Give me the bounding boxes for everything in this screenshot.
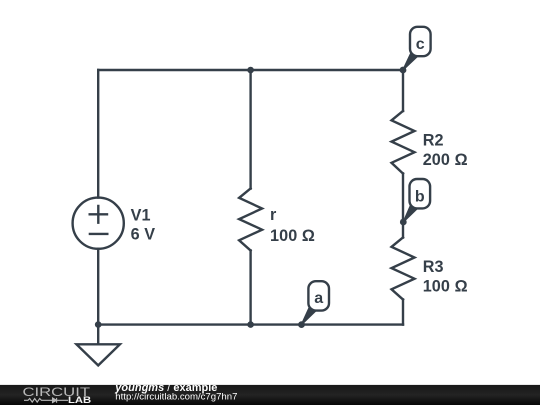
- svg-text:100 Ω: 100 Ω: [423, 278, 468, 296]
- wire left vertical (bottom of V1): [97, 249, 99, 325]
- svg-text:r: r: [270, 206, 277, 224]
- logo squiggle wire: [24, 399, 68, 403]
- svg-text:b: b: [415, 188, 425, 205]
- junction dot top middle: [247, 67, 254, 74]
- resistor R2 zigzag: [392, 111, 415, 174]
- resistor R3 zigzag: [392, 238, 415, 300]
- svg-text:6 V: 6 V: [131, 225, 156, 243]
- junction dot bottom left: [95, 321, 102, 328]
- node b dot: [400, 219, 407, 226]
- wire right vertical (top of R2): [402, 70, 404, 111]
- voltage source V1 circle: [73, 198, 124, 249]
- wire bottom horizontal: [98, 323, 403, 325]
- V1 minus sign: [90, 233, 107, 235]
- wire middle vertical (top of r): [249, 70, 251, 189]
- ground stub: [97, 325, 99, 345]
- footer bar: [0, 385, 540, 405]
- node b box: [410, 179, 431, 208]
- svg-text:c: c: [416, 36, 425, 53]
- svg-text:R3: R3: [423, 258, 444, 276]
- svg-text:LAB: LAB: [68, 395, 91, 405]
- node a dot: [298, 321, 305, 328]
- svg-text:200 Ω: 200 Ω: [423, 151, 468, 169]
- ground triangle: [77, 344, 120, 365]
- V1 plus sign: [90, 206, 107, 223]
- node c pointer: [403, 52, 418, 71]
- node c box: [410, 27, 431, 56]
- wire right vertical (bottom of R3): [402, 300, 404, 325]
- svg-text:http://circuitlab.com/c7g7hn7: http://circuitlab.com/c7g7hn7: [115, 391, 237, 402]
- wire top horizontal: [98, 69, 403, 71]
- wire left vertical (top of V1): [97, 70, 99, 198]
- node c dot: [400, 67, 407, 74]
- resistor r zigzag: [239, 189, 262, 251]
- wire middle vertical (bottom of r): [249, 251, 251, 325]
- svg-text:a: a: [314, 290, 323, 307]
- svg-text:V1: V1: [131, 207, 151, 225]
- svg-text:R2: R2: [423, 131, 444, 149]
- junction dot bottom middle: [247, 321, 254, 328]
- wire right vertical (R2 to R3 through node b): [402, 174, 404, 238]
- node a pointer: [302, 306, 317, 325]
- logo diode: [53, 398, 57, 403]
- node b pointer: [403, 204, 417, 222]
- svg-text:100 Ω: 100 Ω: [270, 227, 315, 245]
- node a box: [308, 281, 329, 310]
